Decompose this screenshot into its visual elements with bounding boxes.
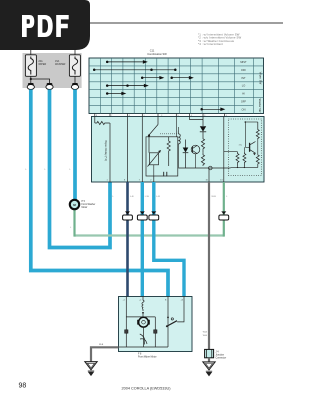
svg-text:OFF: OFF [241,100,247,104]
svg-text:OFF: OFF [241,68,247,72]
wire: VR to box bottom [153,165,155,176]
wire: washer motor lead (green) [73,210,75,237]
svg-text:W-B: W-B [203,332,208,334]
wire WF vertical (green): to relay pin F [223,182,225,237]
svg-text:WIPER: WIPER [38,63,46,66]
wire: pin D from control box [153,176,155,182]
svg-text:L: L [70,227,72,229]
combination switch block C11 [89,58,264,114]
wire: fuse2 bottom to connector [74,76,76,83]
wire: motor internal pin +1 vertical [125,297,127,348]
svg-text:P 5: P 5 [82,201,86,203]
svg-text:L: L [26,169,28,171]
contact row MIST [106,61,147,64]
wire: junction down to motor [142,313,144,318]
svg-text:*4 : w/ Intermittent: *4 : w/ Intermittent [198,42,223,46]
resistor R5 (right top) [256,122,259,139]
svg-text:WASHER: WASHER [55,63,66,66]
wire: branch to middle connector [31,79,50,83]
mechanical link (dotted) [160,133,178,135]
svg-text:L-B: L-B [130,196,134,198]
grid row lines [89,66,264,106]
svg-text:Combination SW: Combination SW [147,52,167,56]
connector 1A (below fuse box) [27,83,34,90]
label: F8 front wiper motor [138,353,157,358]
resistor R3 [201,132,204,153]
wire WB (navy): relay pin B to wiper motor pin 1 [126,182,129,297]
wire: motor bottom to rail [143,327,145,347]
fuse F2 value label [55,60,66,66]
park switch contact ring [171,318,173,320]
winding to motor [142,297,144,312]
label: junction connector [216,352,227,360]
transistor Q2 [245,142,256,156]
svg-text:98: 98 [19,383,27,390]
capacitor C1 [164,172,167,177]
contact row washer ON [201,108,225,111]
fuse F1 value label [38,60,46,66]
wire: relay mid horizontal bus [178,167,230,169]
node: winding to motor junction [142,312,144,314]
wire: collector feed vertical [244,122,246,147]
wiper relay block [92,117,265,183]
resistor R4 [201,153,204,166]
switch position labels [240,60,247,111]
intermittent control box [146,137,178,176]
wire: fuse1 bottom to junction [30,76,32,83]
connector 2D on cyan wire [149,211,159,220]
wire code labels below relay [113,196,229,198]
cam switch arcs [140,334,147,345]
svg-text:L-R: L-R [156,196,160,198]
switch SW1 inside relay [148,117,158,153]
wire WG (gray): motor block to left ground [91,347,119,361]
resistor R2 (zigzag in box) [167,137,170,166]
node: junction dot under fuse 1 [30,78,32,80]
junction connector J4 [205,349,214,357]
svg-text:J 4: J 4 [216,352,220,354]
fuse F1 WIPER [25,55,36,77]
wire: Q1 emitter to bus [195,154,197,168]
connector 1B (middle) [46,83,53,90]
svg-text:INT: INT [241,76,246,80]
diode D3 [183,140,189,169]
svg-text:L-W: L-W [145,196,150,198]
label: W-B wire code right [203,332,208,338]
svg-text:LO: LO [242,84,245,88]
contact row INT segment 2 [171,76,193,79]
wire: option feed into box [224,151,238,153]
svg-text:W-B: W-B [212,196,217,198]
relay coil L1 [178,131,180,168]
wire WC (cyan): relay pin C to wiper motor pin 2 [141,182,144,297]
motor pin labels [123,300,184,302]
svg-text:HI: HI [242,92,245,96]
svg-text:Washer SW: Washer SW [258,99,262,113]
svg-text:Connector: Connector [216,357,227,360]
park switch arm [167,321,177,327]
contact row HI [106,92,125,95]
fuse box (junction block), gray [23,53,82,88]
contact row LO [106,84,148,87]
wire WF horizontal (green): washer motor line [75,234,224,236]
wire: junction connector to ground stub [208,358,210,362]
svg-text:Front Wiper Motor: Front Wiper Motor [138,355,157,358]
svg-text:MIST: MIST [240,60,247,64]
washer motor P5 [70,200,79,209]
transistor Q1 [191,145,200,154]
wire: box top horizontal [245,121,257,123]
grid column lines [100,58,253,114]
wire: relay pin F vertical [223,117,225,183]
wire WE (gray): relay pin E ground wire [208,182,210,349]
legend note text (top right) [198,33,241,46]
connector 2B on navy wire [123,211,133,220]
svg-text:F 8: F 8 [138,353,142,355]
svg-text:Front Washer: Front Washer [82,203,96,206]
connector 2F on green wire [219,211,229,220]
wiper motor M [137,317,150,327]
internal connector square 2 [154,330,157,333]
connector 1C (right) [71,83,78,90]
label: C11 Combination SW title [147,49,167,56]
wire: relay pin A vertical [109,123,111,182]
svg-text:W-B: W-B [203,335,208,337]
svg-text:L: L [226,196,228,198]
wire: box bottom horizontal [231,166,258,168]
variable resistor VR1 [148,151,161,167]
label: front washer motor [82,201,96,209]
node: box top junction [245,121,247,123]
wire: top link in relay right [190,117,204,120]
wire: square2 vertical [154,317,156,347]
wire: right column middle [257,138,259,154]
contact row INT segment 1 [141,76,163,79]
resistor R7 (left) [236,152,239,167]
wire WD (cyan): relay pin D to wiper motor pin 4 [154,182,184,297]
svg-text:L: L [45,169,47,171]
relay bottom pin number labels [107,180,224,182]
connector 2C on cyan wire [137,211,147,220]
ground G2 (right) [203,362,215,376]
wire: R9 top stub [243,147,245,151]
svg-text:L: L [70,169,72,171]
fuse F2 WASHER [69,55,80,77]
resistor R1 (relay feed) [95,117,110,125]
wire: coil top link [177,127,179,131]
svg-text:Wiper SW: Wiper SW [258,72,262,85]
wire code labels on feed wires [26,169,72,171]
wire: fuse 2 top stub to badge [74,50,76,55]
svg-text:Motor: Motor [82,206,88,209]
PDF badge [0,0,90,50]
svg-text:(*1): (*1) [239,144,243,146]
internal connector square 1 [125,330,128,333]
contact row OFF [93,69,176,71]
wire W2 (cyan): fuse2 connector down, right, up to relay pin A [50,90,111,248]
diode D1 [200,117,206,132]
resistor R6 (right bottom) [256,154,259,167]
node: circled junction [209,166,213,170]
svg-text:W-B: W-B [99,344,104,346]
wire: internal horizontal link [126,316,155,318]
wire: relay pin B vertical [127,117,129,183]
wire W3 (cyan): washer fuse connector down to washer motor [73,90,77,200]
wire: relay pin E vertical [208,168,210,182]
wire: stub below tick 176 [175,117,177,137]
svg-text:Wiper Relay (*4): Wiper Relay (*4) [104,140,108,161]
pin stubs between combination switch and wiper relay [95,114,225,117]
wire: fuse 1 top stub to badge [30,50,32,55]
svg-text:2004 COROLLA (EWD533U): 2004 COROLLA (EWD533U) [122,387,172,391]
wire: motor internal pin B vertical [167,297,169,348]
svg-text:Junction: Junction [216,354,225,357]
wire: motor bottom rail [119,346,169,348]
amplifier dashed box [229,119,262,176]
svg-text:ON: ON [242,107,246,111]
pin number marks between blocks [96,115,227,117]
resistor R9 (middle) [243,152,246,167]
wire: pin +S vertical and elbow [177,297,184,322]
wire W1 (cyan): fuse1 connector down, right, down to wiper motor pin B [31,90,168,297]
node: bottom junction dots [237,167,238,168]
switch position contact arrows [93,61,224,111]
ground G1 (left) [85,362,97,376]
node: arm pivot blob [166,325,168,327]
svg-text:L: L [113,196,115,198]
wire: relay pin C vertical [141,117,143,183]
front wiper motor block F8 [119,297,193,352]
wire: top horizontal feed line [88,22,283,24]
node: park switch pivot [167,317,169,319]
